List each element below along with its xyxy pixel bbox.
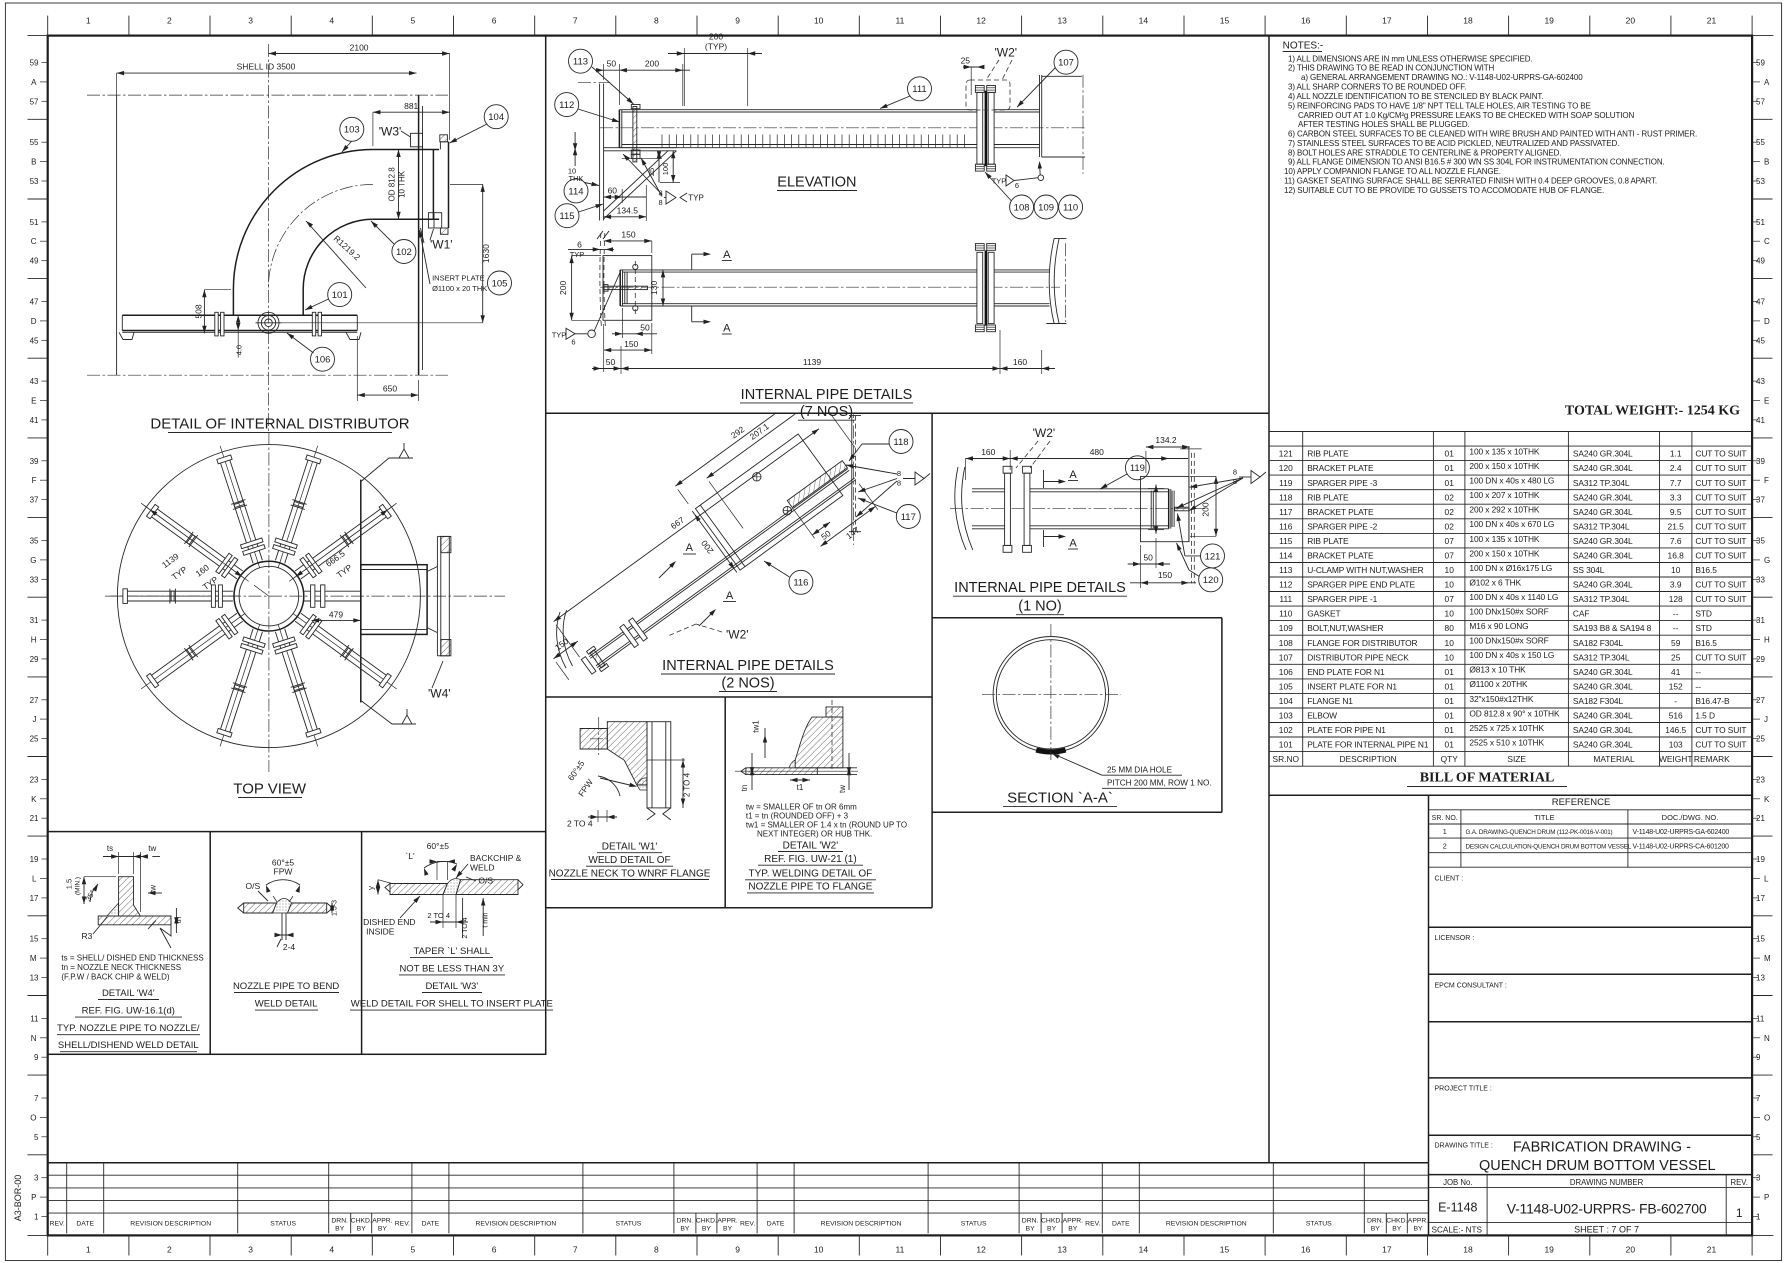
break ends [238, 903, 244, 913]
svg-text:6: 6 [492, 1245, 497, 1255]
svg-text:1: 1 [1443, 827, 1447, 836]
svg-text:`L': `L' [405, 851, 415, 861]
balloon 120 [1199, 568, 1223, 592]
svg-text:57: 57 [30, 97, 39, 106]
svg-text:101: 101 [1279, 740, 1293, 750]
svg-text:Ø102 x 6 THK: Ø102 x 6 THK [1469, 577, 1521, 587]
svg-text:SR. NO.: SR. NO. [1432, 815, 1458, 822]
svg-text:TYP. NOZZLE PIPE TO NOZZLE/: TYP. NOZZLE PIPE TO NOZZLE/ [57, 1023, 200, 1034]
shell plate right [456, 880, 518, 895]
svg-text:tw = SMALLER OF tn OR 6mm: tw = SMALLER OF tn OR 6mm [746, 802, 857, 811]
dim 160 / 480 [966, 458, 1189, 460]
svg-text:A: A [1069, 538, 1077, 550]
flange body [607, 722, 647, 785]
svg-text:59: 59 [1756, 59, 1765, 68]
bottom tangent centerline [87, 374, 448, 376]
border column ticks and numbers (top/bottom) [128, 16, 130, 36]
svg-text:BY: BY [1392, 1226, 1402, 1233]
balloon 108 [1010, 195, 1034, 219]
svg-text:REVISION DESCRIPTION: REVISION DESCRIPTION [130, 1221, 211, 1228]
svg-text:43: 43 [30, 377, 39, 386]
svg-text:21: 21 [1756, 814, 1765, 823]
svg-text:17: 17 [1756, 894, 1765, 903]
svg-text:2525 x 725 x 10THK: 2525 x 725 x 10THK [1469, 723, 1544, 733]
svg-text:NOZZLE PIPE TO BEND: NOZZLE PIPE TO BEND [233, 981, 339, 992]
VIEW: section A-A [993, 637, 1109, 753]
dim 479 [312, 619, 361, 621]
dim 2-4 [275, 934, 293, 936]
svg-text:41: 41 [1671, 667, 1681, 677]
svg-text:10: 10 [1445, 652, 1455, 662]
svg-text:200 x 150 x 10THK: 200 x 150 x 10THK [1469, 548, 1540, 558]
dim tn [175, 908, 177, 933]
svg-text:16: 16 [1301, 1245, 1311, 1255]
rib plate 121 hatched [1175, 507, 1189, 511]
svg-text:REF. FIG. UW-16.1(d): REF. FIG. UW-16.1(d) [82, 1006, 175, 1017]
svg-text:60: 60 [608, 186, 618, 196]
svg-text:'W4': 'W4' [428, 686, 451, 700]
svg-text:160: 160 [981, 447, 995, 457]
svg-text:tw: tw [838, 785, 847, 793]
dim 134.5 [604, 216, 647, 218]
balloon 110 [1059, 195, 1083, 219]
svg-text:NOTES:-: NOTES:- [1283, 41, 1324, 52]
svg-text:115: 115 [559, 211, 574, 222]
clamp [590, 650, 605, 668]
svg-text:4.0: 4.0 [235, 345, 244, 355]
end plate right [1039, 75, 1041, 157]
break ends [385, 884, 390, 893]
svg-text:6: 6 [1015, 181, 1019, 190]
svg-text:END PLATE FOR N1: END PLATE FOR N1 [1307, 667, 1385, 677]
balloon 106 [311, 347, 335, 371]
svg-text:SA240 GR.304L: SA240 GR.304L [1573, 536, 1633, 546]
svg-text:37: 37 [30, 496, 39, 505]
svg-text:tw1 = SMALLER OF 1.4 x tn (ROU: tw1 = SMALLER OF 1.4 x tn (ROUND UP TO [746, 820, 907, 829]
svg-text:3: 3 [248, 1245, 253, 1255]
shell wall left [116, 95, 118, 375]
insert plate left [390, 884, 447, 895]
svg-text:CUT TO SUIT: CUT TO SUIT [1695, 740, 1746, 750]
dim 881 [373, 111, 450, 113]
svg-text:BY: BY [723, 1226, 733, 1233]
svg-text:101: 101 [332, 290, 348, 301]
svg-text:20: 20 [1626, 1245, 1636, 1255]
svg-text:SA240 GR.304L: SA240 GR.304L [1573, 449, 1633, 459]
svg-text:WELD DETAIL: WELD DETAIL [255, 999, 318, 1010]
balloon 114 [564, 179, 588, 203]
svg-text:tn: tn [174, 917, 183, 924]
dim t min [482, 898, 484, 936]
svg-text:--: -- [1673, 609, 1679, 619]
svg-text:OD 812.8: OD 812.8 [388, 167, 397, 202]
svg-text:D: D [31, 317, 37, 326]
svg-text:TYP: TYP [992, 177, 1007, 186]
svg-text:BY: BY [1026, 1226, 1036, 1233]
weld bead [789, 760, 795, 768]
svg-text:REVISION DESCRIPTION: REVISION DESCRIPTION [475, 1221, 556, 1228]
gusset plate 115 [604, 151, 677, 219]
svg-text:15: 15 [30, 935, 39, 944]
svg-text:50: 50 [1143, 553, 1153, 563]
svg-text:NOZZLE NECK TO WNRF FLANGE: NOZZLE NECK TO WNRF FLANGE [549, 868, 711, 879]
svg-text:25: 25 [1756, 735, 1765, 744]
svg-text:M: M [30, 954, 37, 963]
svg-text:SPARGER PIPE -1: SPARGER PIPE -1 [1307, 594, 1377, 604]
svg-text:55: 55 [30, 138, 39, 147]
svg-text:CHKD.: CHKD. [351, 1218, 372, 1225]
svg-text:STATUS: STATUS [615, 1221, 641, 1228]
svg-text:NOZZLE PIPE TO FLANGE: NOZZLE PIPE TO FLANGE [748, 882, 872, 893]
svg-text:DETAIL 'W3': DETAIL 'W3' [425, 981, 478, 992]
svg-text:1: 1 [1736, 1206, 1743, 1220]
svg-text:150: 150 [1158, 570, 1172, 580]
svg-text:A: A [726, 590, 734, 602]
svg-text:DRN.: DRN. [677, 1218, 694, 1225]
u-bolt circles [633, 264, 638, 269]
svg-text:13: 13 [30, 974, 39, 983]
svg-text:3.9: 3.9 [1670, 580, 1682, 590]
sparger pipe body [620, 269, 977, 271]
bracket bolts [753, 473, 761, 481]
svg-text:18: 18 [1463, 1245, 1473, 1255]
svg-text:200 x 292 x 10THK: 200 x 292 x 10THK [1469, 505, 1540, 515]
svg-text:V-1148-U02-URPRS-CA-601200: V-1148-U02-URPRS-CA-601200 [1633, 843, 1730, 850]
svg-text:7: 7 [573, 1245, 578, 1255]
svg-text:DRN.: DRN. [1022, 1218, 1039, 1225]
svg-text:DOC./DWG. NO.: DOC./DWG. NO. [1662, 813, 1719, 822]
svg-text:DRAWING TITLE :: DRAWING TITLE : [1435, 1142, 1493, 1149]
svg-text:13: 13 [1057, 16, 1067, 26]
svg-text:CUT TO SUIT: CUT TO SUIT [1695, 652, 1746, 662]
svg-text:tw1: tw1 [752, 720, 761, 733]
svg-text:8) BOLT HOLES ARE STRADDLE TO: 8) BOLT HOLES ARE STRADDLE TO CENTERLINE… [1288, 148, 1561, 157]
svg-text:a) GENERAL ARRANGEMENT DRAWIN: a) GENERAL ARRANGEMENT DRAWING NO.: V-11… [1301, 73, 1583, 82]
svg-text:BRACKET PLATE: BRACKET PLATE [1307, 463, 1374, 473]
svg-text:(1 NO): (1 NO) [1018, 599, 1062, 615]
svg-text:APPR.: APPR. [717, 1218, 738, 1225]
svg-text:120: 120 [1279, 463, 1293, 473]
svg-text:SA312 TP.304L: SA312 TP.304L [1573, 652, 1630, 662]
angle 35 [90, 884, 98, 902]
svg-text:25 MM DIA HOLE: 25 MM DIA HOLE [1107, 765, 1173, 774]
svg-text:CARRIED OUT AT 1.0 Kg/CM²g PRE: CARRIED OUT AT 1.0 Kg/CM²g PRESSURE LEAK… [1298, 111, 1634, 120]
svg-text:3) ALL SHARP CORNERS TO BE ROU: 3) ALL SHARP CORNERS TO BE ROUNDED OFF. [1288, 83, 1466, 92]
svg-text:CUT TO SUIT: CUT TO SUIT [1695, 580, 1746, 590]
svg-text:3.3: 3.3 [1670, 492, 1682, 502]
svg-text:114: 114 [1279, 551, 1293, 561]
svg-text:SCALE:- NTS: SCALE:- NTS [1432, 1225, 1483, 1234]
svg-text:43: 43 [1756, 377, 1765, 386]
svg-text:1.5-3: 1.5-3 [332, 900, 339, 916]
dim 2 TO 4 [442, 895, 444, 929]
svg-text:37: 37 [1756, 496, 1765, 505]
svg-text:01: 01 [1445, 740, 1455, 750]
svg-text:19: 19 [30, 855, 39, 864]
svg-text:CUT TO SUIT: CUT TO SUIT [1695, 594, 1746, 604]
svg-text:152: 152 [1669, 682, 1683, 692]
balloon 117 [896, 505, 920, 529]
sparger pipe spoke 216deg [157, 621, 242, 683]
WNRF flange plan [436, 536, 438, 655]
svg-text:100 DN x 40s x 1140 LG: 100 DN x 40s x 1140 LG [1469, 592, 1558, 602]
svg-text:tn: tn [740, 785, 749, 792]
svg-text:Ø1100 x 20THK: Ø1100 x 20THK [1469, 679, 1528, 689]
root lines [281, 913, 283, 940]
svg-text:118: 118 [1279, 492, 1293, 502]
svg-text:113: 113 [1279, 565, 1293, 575]
svg-text:16: 16 [1301, 16, 1311, 26]
svg-text:CUT TO SUIT: CUT TO SUIT [1695, 478, 1746, 488]
svg-text:G: G [30, 556, 36, 565]
svg-text:1) ALL DIMENSIONS ARE IN mm U: 1) ALL DIMENSIONS ARE IN mm UNLESS OTHER… [1288, 54, 1533, 63]
svg-text:11: 11 [895, 16, 904, 26]
svg-text:21.5: 21.5 [1668, 521, 1685, 531]
svg-text:107: 107 [1058, 58, 1074, 69]
svg-text:01: 01 [1445, 711, 1455, 721]
svg-text:01: 01 [1445, 696, 1455, 706]
svg-text:117: 117 [1279, 507, 1293, 517]
svg-text:DATE: DATE [76, 1221, 94, 1228]
bolt centerline [598, 717, 600, 755]
svg-text:19: 19 [1544, 1245, 1554, 1255]
svg-text:B16.5: B16.5 [1695, 638, 1717, 648]
svg-text:NEXT INTEGER) OR HUB THK.: NEXT INTEGER) OR HUB THK. [757, 830, 872, 839]
svg-text:1139: 1139 [803, 357, 822, 367]
svg-text:BOLT,NUT,WASHER: BOLT,NUT,WASHER [1307, 623, 1383, 633]
svg-text:21: 21 [1707, 1245, 1717, 1255]
svg-text:P: P [1764, 1193, 1769, 1202]
svg-text:8: 8 [654, 1245, 659, 1255]
svg-text:51: 51 [1756, 218, 1765, 227]
svg-text:100 DN x Ø16x175 LG: 100 DN x Ø16x175 LG [1469, 563, 1552, 573]
balloon 113 [569, 49, 593, 73]
svg-text:15: 15 [1220, 1245, 1230, 1255]
svg-text:B16.5: B16.5 [1695, 565, 1717, 575]
svg-text:SECTION `A-A`: SECTION `A-A` [1007, 790, 1113, 807]
svg-text:100 x 135 x 10THK: 100 x 135 x 10THK [1469, 534, 1540, 544]
svg-text:BILL OF MATERIAL: BILL OF MATERIAL [1420, 771, 1555, 786]
flange pair 108 [977, 92, 983, 164]
dim tw [848, 753, 850, 790]
balloon 112 [555, 93, 579, 117]
section A-A arrows [691, 254, 693, 270]
horizontal shell plate [98, 916, 171, 929]
svg-text:9) ALL FLANGE DIMENSION TO ANS: 9) ALL FLANGE DIMENSION TO ANSI B16.5 # … [1288, 158, 1665, 167]
svg-text:A: A [686, 542, 694, 554]
svg-text:y: y [367, 886, 376, 890]
svg-text:SA193 B8 & SA194 8: SA193 B8 & SA194 8 [1573, 623, 1652, 633]
svg-text:(F.P.W / BACK CHIP & WELD): (F.P.W / BACK CHIP & WELD) [61, 973, 170, 982]
svg-text:2: 2 [167, 1245, 172, 1255]
svg-text:9: 9 [735, 1245, 740, 1255]
svg-text:25: 25 [1671, 652, 1681, 662]
svg-text:116: 116 [1279, 521, 1293, 531]
svg-text:PROJECT TITLE :: PROJECT TITLE : [1435, 1086, 1492, 1093]
svg-text:31: 31 [30, 616, 39, 625]
svg-text:1630: 1630 [481, 244, 491, 263]
svg-text:9: 9 [735, 16, 740, 26]
svg-text:REVISION DESCRIPTION: REVISION DESCRIPTION [1166, 1221, 1247, 1228]
svg-text:5: 5 [1756, 1133, 1761, 1142]
svg-text:110: 110 [1279, 609, 1293, 619]
svg-text:CUT TO SUIT: CUT TO SUIT [1695, 449, 1746, 459]
svg-text:A: A [723, 249, 731, 261]
svg-text:7.6: 7.6 [1670, 536, 1682, 546]
svg-text:t min: t min [483, 912, 490, 927]
rib plate 118 hatched [787, 461, 847, 508]
svg-text:50: 50 [607, 59, 617, 69]
svg-text:4: 4 [329, 16, 334, 26]
svg-text:104: 104 [1279, 696, 1293, 706]
svg-text:BY: BY [1413, 1226, 1423, 1233]
nozzle neck 107 [1042, 75, 1082, 77]
svg-text:11) GASKET SEATING SURFACE SHA: 11) GASKET SEATING SURFACE SHALL BE SERR… [1284, 177, 1657, 186]
dashed zone W2 [966, 80, 1010, 110]
svg-text:SHELL/DISHEND WELD DETAIL: SHELL/DISHEND WELD DETAIL [58, 1040, 199, 1051]
svg-text:DRN.: DRN. [331, 1218, 348, 1225]
svg-text:121: 121 [1279, 449, 1293, 459]
svg-text:6) CARBON STEEL SURFACES TO BE: 6) CARBON STEEL SURFACES TO BE CLEANED W… [1288, 129, 1697, 138]
svg-text:SS 304L: SS 304L [1573, 565, 1605, 575]
weld details box bottom-left [48, 832, 546, 1055]
svg-text:50: 50 [640, 323, 650, 333]
svg-text:4: 4 [329, 1245, 334, 1255]
vertical nozzle plate [119, 877, 141, 916]
flange bolts [440, 135, 448, 142]
svg-text:t1 = tn (ROUNDED OFF) + 3: t1 = tn (ROUNDED OFF) + 3 [746, 811, 849, 820]
svg-text:E: E [31, 397, 36, 406]
svg-text:128: 128 [1669, 594, 1683, 604]
svg-text:2 TO 4: 2 TO 4 [682, 772, 691, 797]
pipe bore lines through flange [817, 767, 857, 769]
svg-text:V-1148-U02-URPRS-GA-602400: V-1148-U02-URPRS-GA-602400 [1633, 829, 1730, 836]
svg-text:17: 17 [1382, 1245, 1392, 1255]
distributor bottom bar plate 101 [122, 314, 357, 316]
svg-text:Ø1100 x 20 THK: Ø1100 x 20 THK [432, 284, 487, 293]
svg-text:130: 130 [649, 281, 659, 295]
center flange circle 106 [258, 312, 279, 333]
svg-text:P: P [31, 1193, 36, 1202]
sparger pipe spoke 324deg [301, 613, 386, 675]
dim 200 [1215, 476, 1217, 536]
dim 50/200 left [603, 64, 605, 80]
dim 50/1139/160 bottom [620, 346, 622, 374]
svg-text:200 x 150 x 10THK: 200 x 150 x 10THK [1469, 461, 1540, 471]
u-clamp bolt 113 [633, 107, 637, 162]
svg-text:57: 57 [1756, 97, 1765, 106]
svg-text:5) REINFORCING PADS TO HAVE 1/: 5) REINFORCING PADS TO HAVE 1/8" NPT TEL… [1288, 102, 1591, 111]
svg-text:35: 35 [1756, 537, 1765, 546]
svg-text:02: 02 [1445, 521, 1455, 531]
svg-text:SA182 F304L: SA182 F304L [1573, 696, 1624, 706]
svg-text:100 DN x 40s x 670 LG: 100 DN x 40s x 670 LG [1469, 519, 1554, 529]
svg-text:7: 7 [573, 16, 578, 26]
svg-text:APPR.: APPR. [1408, 1218, 1429, 1225]
svg-text:112: 112 [559, 100, 574, 111]
dim tn [751, 753, 753, 790]
balloon 104 [484, 105, 508, 129]
svg-text:14: 14 [1139, 1245, 1149, 1255]
dim 134.2 [1146, 446, 1190, 448]
svg-text:2: 2 [167, 16, 172, 26]
svg-text:5: 5 [411, 1245, 416, 1255]
svg-text:REF. FIG. UW-21 (1): REF. FIG. UW-21 (1) [764, 854, 857, 865]
svg-text:SA240 GR.304L: SA240 GR.304L [1573, 740, 1633, 750]
svg-text:01: 01 [1445, 725, 1455, 735]
svg-text:RIB PLATE: RIB PLATE [1307, 536, 1349, 546]
bracket top under pipe [604, 147, 677, 149]
svg-text:REVISION DESCRIPTION: REVISION DESCRIPTION [821, 1221, 902, 1228]
svg-text:APPR.: APPR. [372, 1218, 393, 1225]
svg-text:B: B [31, 158, 36, 167]
svg-text:53: 53 [30, 177, 39, 186]
svg-text:27: 27 [30, 696, 39, 705]
svg-text:SA240 GR.304L: SA240 GR.304L [1573, 711, 1633, 721]
leader to hole note [1049, 752, 1102, 775]
svg-text:100 DN x 40s x 150 LG: 100 DN x 40s x 150 LG [1469, 650, 1554, 660]
svg-text:14: 14 [1139, 16, 1149, 26]
revision table [48, 1174, 1429, 1176]
dim 650 [357, 394, 418, 396]
svg-text:--: -- [1695, 667, 1701, 677]
svg-text:INTERNAL PIPE DETAILS: INTERNAL PIPE DETAILS [662, 658, 834, 674]
svg-text:19: 19 [1544, 16, 1554, 26]
svg-text:STATUS: STATUS [270, 1221, 296, 1228]
svg-text:SHELL ID 3500: SHELL ID 3500 [237, 62, 296, 72]
svg-text:6: 6 [571, 338, 575, 347]
balloon 101 [328, 283, 352, 307]
dim tw [139, 852, 141, 912]
svg-text:SR.NO: SR.NO [1273, 754, 1300, 764]
svg-text:119: 119 [1130, 463, 1145, 474]
svg-text:16.8: 16.8 [1668, 551, 1685, 561]
svg-text:SA240 GR.304L: SA240 GR.304L [1573, 682, 1633, 692]
svg-text:100 x 135 x 10THK: 100 x 135 x 10THK [1469, 447, 1540, 457]
shell wall left [955, 467, 966, 550]
svg-text:ts: ts [107, 844, 113, 853]
svg-text:8: 8 [897, 479, 901, 488]
support feet [119, 332, 134, 339]
svg-text:INSERT PLATE: INSERT PLATE [432, 274, 485, 283]
svg-text:SPARGER PIPE END PLATE: SPARGER PIPE END PLATE [1307, 580, 1415, 590]
svg-text:SA312 TP.304L: SA312 TP.304L [1573, 521, 1630, 531]
svg-text:CAF: CAF [1573, 609, 1589, 619]
svg-text:DATE: DATE [767, 1221, 785, 1228]
svg-text:CUT TO SUIT: CUT TO SUIT [1695, 725, 1746, 735]
svg-text:B: B [1764, 158, 1769, 167]
sparger end plate [1168, 489, 1170, 529]
svg-text:EPCM CONSULTANT :: EPCM CONSULTANT : [1435, 982, 1507, 989]
top bolt tab [826, 707, 843, 717]
svg-text:SA312 TP.304L: SA312 TP.304L [1573, 594, 1630, 604]
svg-text:E-1148: E-1148 [1438, 1201, 1477, 1215]
plate edge right [1188, 446, 1190, 542]
bracket plate 120 [1141, 476, 1189, 541]
svg-text:FPW: FPW [274, 867, 293, 877]
svg-text:103: 103 [344, 125, 360, 136]
svg-text:105: 105 [1279, 682, 1293, 692]
svg-text:108: 108 [1014, 202, 1030, 213]
svg-text:PITCH 200 MM, ROW 1 NO.: PITCH 200 MM, ROW 1 NO. [1107, 778, 1212, 787]
svg-text:200: 200 [1201, 502, 1211, 516]
svg-text:200: 200 [709, 32, 723, 42]
svg-text:RIB PLATE: RIB PLATE [1307, 449, 1349, 459]
svg-text:8: 8 [654, 16, 659, 26]
svg-text:F: F [1764, 476, 1769, 485]
svg-text:REV.: REV. [1730, 1178, 1747, 1187]
svg-text:109: 109 [1279, 623, 1293, 633]
